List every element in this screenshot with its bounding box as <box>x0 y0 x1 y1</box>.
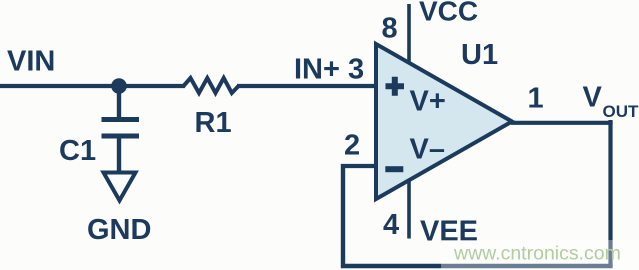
capacitor C1 top plate <box>102 117 140 122</box>
svg-text:IN+ 3: IN+ 3 <box>294 54 364 86</box>
op-amp non-inverting input marker (+) <box>386 77 405 96</box>
svg-text:V–: V– <box>410 134 445 166</box>
svg-text:VIN: VIN <box>7 46 55 78</box>
svg-text:4: 4 <box>383 209 399 241</box>
wire: feedback bottom horizontal <box>341 264 613 269</box>
resistor R1 zigzag <box>184 78 239 93</box>
capacitor C1 bottom plate <box>102 134 140 139</box>
op-amp U1 triangle body <box>376 44 512 199</box>
ground symbol <box>104 173 136 201</box>
svg-text:V+: V+ <box>410 86 446 118</box>
wire: junction to C1 top plate <box>117 86 121 118</box>
op-amp inverting input marker (-) <box>385 166 403 172</box>
watermark overlay band <box>441 240 639 270</box>
svg-text:U1: U1 <box>461 39 498 71</box>
wire: output horizontal <box>511 121 613 125</box>
svg-text:OUT: OUT <box>603 102 639 121</box>
svg-text:www.cntronics.com: www.cntronics.com <box>453 243 621 265</box>
svg-text:GND: GND <box>87 214 151 246</box>
svg-text:8: 8 <box>382 13 398 45</box>
wire: resistor to op-amp non-inverting input <box>237 84 376 88</box>
wire: VIN input segment <box>0 84 185 88</box>
svg-text:R1: R1 <box>195 107 232 139</box>
wire: C1 bottom plate to ground <box>117 136 121 171</box>
svg-text:C1: C1 <box>59 135 96 167</box>
pin 8 wire: VCC supply pin <box>407 4 411 63</box>
svg-text:2: 2 <box>344 130 360 162</box>
wire: feedback left vertical <box>341 164 345 268</box>
wire: pin 2 inverting input stub <box>341 164 376 168</box>
svg-text:VCC: VCC <box>419 0 478 27</box>
svg-text:1: 1 <box>528 83 544 115</box>
pin 4 wire: VEE supply pin <box>407 180 411 239</box>
svg-text:V: V <box>583 82 603 114</box>
wire: feedback right vertical <box>608 120 612 268</box>
node: VIN / C1 junction <box>111 78 127 94</box>
